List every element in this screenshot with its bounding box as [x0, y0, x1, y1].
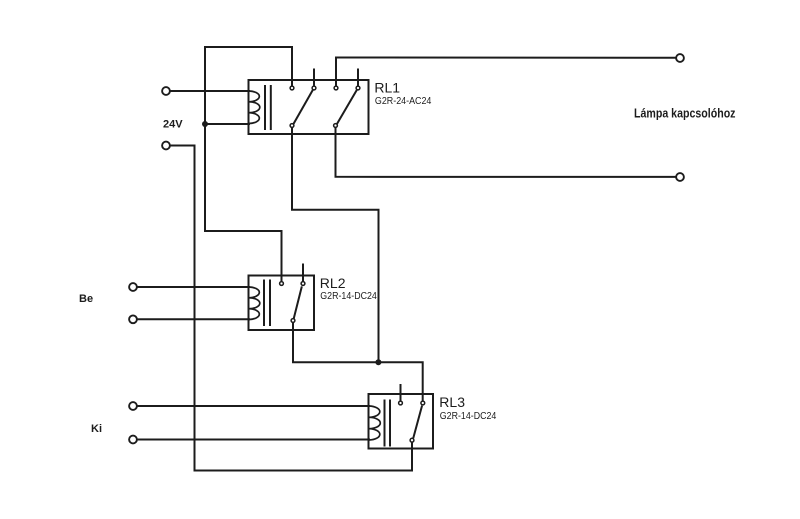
svg-text:G2R-14-DC24: G2R-14-DC24: [440, 411, 497, 422]
svg-text:Be: Be: [79, 293, 93, 305]
svg-text:RL2: RL2: [320, 275, 346, 291]
svg-text:G2R-24-AC24: G2R-24-AC24: [375, 96, 432, 107]
svg-text:G2R-14-DC24: G2R-14-DC24: [320, 291, 377, 302]
svg-text:Lámpa kapcsolóhoz: Lámpa kapcsolóhoz: [634, 107, 736, 121]
svg-text:RL1: RL1: [374, 80, 400, 96]
svg-text:24V: 24V: [163, 119, 183, 131]
svg-text:Ki: Ki: [91, 423, 102, 435]
svg-text:RL3: RL3: [439, 394, 465, 410]
